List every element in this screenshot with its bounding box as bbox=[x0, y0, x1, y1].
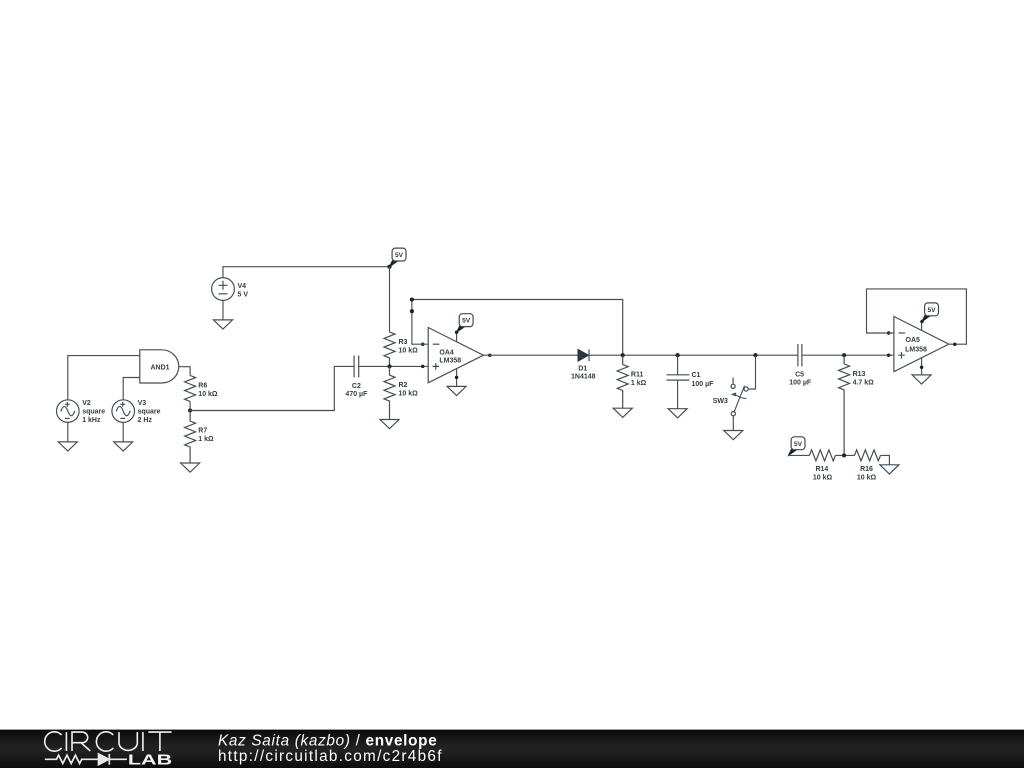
node C1 junction bbox=[676, 353, 680, 357]
OA5 - input pin dot bbox=[887, 331, 891, 335]
OA5 top power pin bbox=[921, 322, 923, 331]
wire D1 to C5 (main line) bbox=[589, 354, 798, 356]
svg-text:R11: R11 bbox=[631, 372, 644, 379]
svg-text:square: square bbox=[82, 409, 105, 416]
ground below OA5 bbox=[912, 375, 931, 384]
OA4 top power pin dot bbox=[455, 331, 459, 335]
OA4 output pin dot bbox=[488, 353, 492, 357]
svg-text:R2: R2 bbox=[399, 382, 408, 389]
wire V3 top to AND1 input B bbox=[123, 378, 140, 400]
wire SW3 common to ground bbox=[732, 416, 734, 431]
OA4 bottom power pin dot bbox=[455, 376, 459, 380]
ground below R2 bbox=[380, 420, 399, 429]
wire OA4 feedback (- input to D1 node) bbox=[412, 300, 623, 356]
capacitor C1 bbox=[667, 355, 690, 409]
svg-text:C2: C2 bbox=[352, 383, 361, 390]
svg-text:10 kΩ: 10 kΩ bbox=[813, 475, 833, 482]
OA4 - input pin dot bbox=[421, 342, 425, 346]
resistor R14 bbox=[809, 450, 835, 461]
svg-text:square: square bbox=[138, 409, 161, 416]
resistor R16 bbox=[855, 450, 881, 461]
node R13/R14/R16 bbox=[842, 453, 846, 457]
svg-text:100 µF: 100 µF bbox=[692, 381, 715, 388]
net flag 5V (R14) bbox=[789, 437, 806, 456]
resistor R3 bbox=[384, 332, 395, 367]
svg-text:10 kΩ: 10 kΩ bbox=[857, 475, 877, 482]
wire V2 bottom bbox=[67, 422, 69, 442]
capacitor C2 bbox=[354, 356, 359, 378]
wire V3 bottom bbox=[122, 422, 124, 442]
wire V4 top to 5V node bbox=[223, 267, 390, 278]
wire 5V node to R3 bbox=[389, 267, 391, 332]
svg-text:10 kΩ: 10 kΩ bbox=[399, 391, 419, 398]
node R3/R2/+input bbox=[387, 364, 391, 368]
OA5 top power pin dot bbox=[920, 320, 924, 324]
svg-text:C1: C1 bbox=[692, 372, 701, 379]
resistor R7 bbox=[185, 411, 196, 464]
OA5 bottom power pin dot bbox=[920, 366, 924, 370]
resistor R11 bbox=[617, 355, 628, 408]
wire OA5 feedback loop bbox=[867, 289, 967, 344]
logo resistor-diode glyph bbox=[45, 754, 127, 765]
svg-text:10 kΩ: 10 kΩ bbox=[399, 348, 419, 355]
OA4 bottom power pin bbox=[456, 369, 458, 387]
switch SW3 bbox=[731, 377, 748, 415]
svg-text:OA4: OA4 bbox=[439, 349, 454, 356]
svg-text:SW3: SW3 bbox=[713, 398, 728, 405]
voltage source V3 bbox=[112, 400, 135, 423]
svg-text:V4: V4 bbox=[238, 283, 247, 290]
svg-text:R6: R6 bbox=[198, 383, 207, 390]
svg-text:V3: V3 bbox=[138, 400, 147, 407]
svg-text:5 V: 5 V bbox=[238, 291, 249, 298]
svg-text:LM358: LM358 bbox=[905, 347, 927, 354]
ground below SW3 bbox=[724, 431, 743, 440]
svg-text:10 kΩ: 10 kΩ bbox=[198, 391, 218, 398]
resistor R2 bbox=[384, 366, 395, 419]
node feedback corner dot bbox=[410, 297, 414, 301]
wire AND1 output to R6 bbox=[179, 367, 190, 376]
wire flag to R14 bbox=[789, 454, 810, 456]
svg-text:2 Hz: 2 Hz bbox=[138, 417, 153, 424]
svg-text:C5: C5 bbox=[795, 371, 804, 378]
ground below R11 bbox=[613, 408, 632, 417]
node C5/R13 bbox=[842, 353, 846, 357]
svg-text:V2: V2 bbox=[82, 400, 91, 407]
footer bar bbox=[0, 730, 1024, 768]
svg-text:1 kΩ: 1 kΩ bbox=[631, 380, 647, 387]
svg-text:LM358: LM358 bbox=[439, 358, 461, 365]
resistor R6 bbox=[185, 375, 196, 401]
svg-text:1 kHz: 1 kHz bbox=[82, 417, 101, 424]
diode D1 bbox=[578, 349, 589, 361]
wire C5 to OA5 + input bbox=[802, 354, 894, 356]
AND gate AND1 bbox=[140, 350, 179, 383]
svg-text:R3: R3 bbox=[399, 339, 408, 346]
wire SW3 to main line bbox=[748, 355, 755, 389]
svg-text:D1: D1 bbox=[578, 365, 587, 372]
node R6/R7 junction bbox=[188, 408, 192, 412]
wire R16 to ground bbox=[881, 455, 890, 464]
wire V4 bottom bbox=[222, 300, 224, 320]
svg-text:100 µF: 100 µF bbox=[789, 379, 812, 386]
svg-text:AND1: AND1 bbox=[150, 365, 169, 372]
ground below V3 bbox=[114, 442, 133, 451]
svg-text:1N4148: 1N4148 bbox=[571, 374, 596, 381]
svg-text:R16: R16 bbox=[860, 466, 873, 473]
svg-text:LAB: LAB bbox=[128, 753, 172, 768]
OA5 + input pin dot bbox=[887, 353, 891, 357]
logo CIRCUIT bbox=[45, 732, 172, 751]
node 5V rail bbox=[387, 265, 391, 269]
wire OA4 output to D1 bbox=[483, 354, 578, 356]
svg-text:OA5: OA5 bbox=[906, 337, 921, 344]
OA4 + input pin dot bbox=[421, 365, 425, 369]
wire V2 top to AND1 input A bbox=[68, 356, 140, 400]
net flag 5V (OA5 power) bbox=[922, 303, 939, 322]
svg-text:R7: R7 bbox=[198, 428, 207, 435]
OA4 top power pin bbox=[456, 332, 458, 341]
ground below C1 bbox=[668, 409, 687, 418]
net flag 5V (rail) bbox=[390, 248, 407, 267]
ground below OA4 bbox=[447, 386, 466, 395]
node feedback mid dot bbox=[410, 309, 414, 313]
svg-text:http://circuitlab.com/c2r4b6f: http://circuitlab.com/c2r4b6f bbox=[218, 748, 443, 765]
svg-text:R14: R14 bbox=[815, 466, 828, 473]
op-amp OA4 bbox=[428, 328, 483, 383]
voltage source V2 bbox=[57, 400, 80, 423]
ground below R7 bbox=[181, 463, 200, 472]
resistor R13 bbox=[839, 355, 850, 455]
svg-text:4.7 kΩ: 4.7 kΩ bbox=[853, 380, 875, 387]
ground right of R16 bbox=[880, 465, 899, 474]
svg-text:1 kΩ: 1 kΩ bbox=[198, 436, 214, 443]
voltage source V4 bbox=[212, 278, 235, 301]
wire R6 to node bbox=[189, 401, 191, 410]
capacitor C5 bbox=[798, 344, 802, 366]
ground below V4 bbox=[214, 320, 233, 329]
OA5 bottom power pin bbox=[921, 358, 923, 375]
ground below V2 bbox=[58, 442, 77, 451]
op-amp OA5 bbox=[894, 317, 949, 372]
net flag 5V (OA4 power) bbox=[457, 314, 474, 333]
OA5 output pin dot bbox=[953, 342, 957, 346]
svg-text:470 µF: 470 µF bbox=[345, 391, 368, 398]
wire R14 to node bbox=[835, 454, 854, 456]
wire node to C2 bbox=[190, 366, 354, 410]
node SW3 junction bbox=[753, 353, 757, 357]
node D1/R11/feedback bbox=[621, 353, 625, 357]
svg-text:R13: R13 bbox=[853, 371, 866, 378]
wire C2 to OA4 + input bbox=[359, 365, 429, 367]
